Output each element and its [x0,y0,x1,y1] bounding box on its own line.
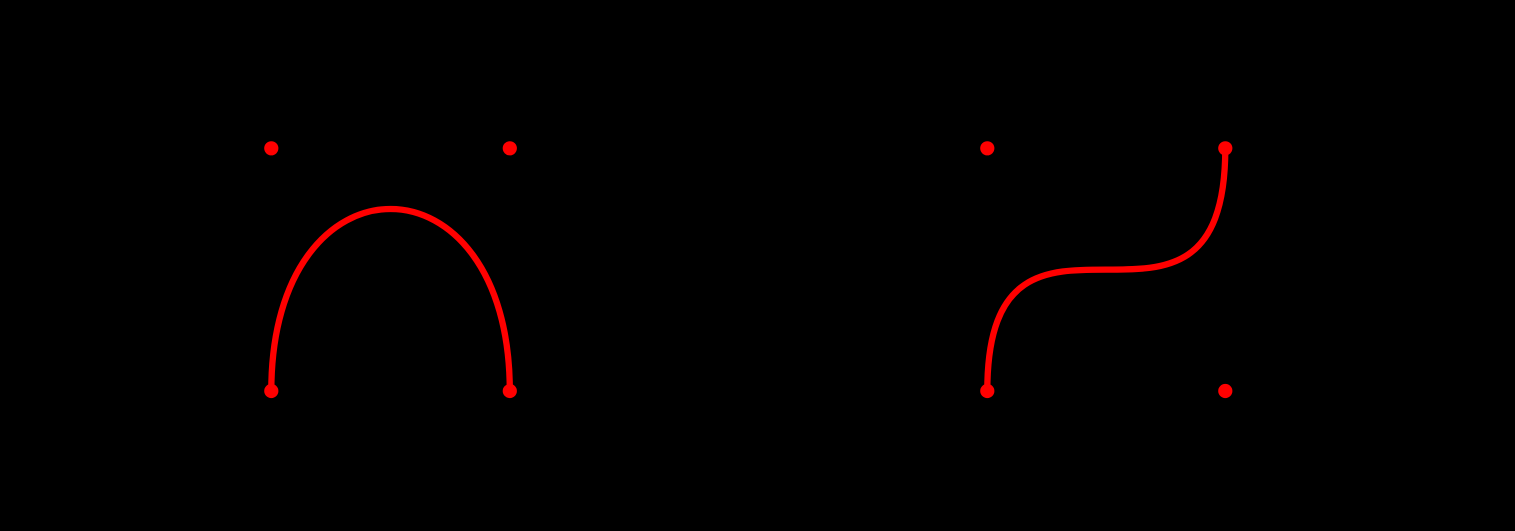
node P2 right control point 2 [1218,384,1232,398]
node P1 left control point 1 [264,141,278,155]
node P3 left end point [503,384,517,398]
node P1 right control point 1 [980,141,994,155]
node P2 left control point 2 [503,141,517,155]
left cubic bezier curve (arch) [271,209,510,391]
node P0 right start point [980,384,994,398]
right cubic bezier curve (S shape) [987,148,1225,391]
node P3 right end point [1218,141,1232,155]
node P0 left start point [264,384,278,398]
